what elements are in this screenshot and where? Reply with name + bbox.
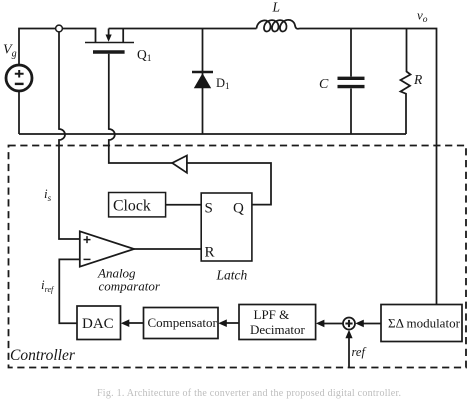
inverter (gate driver) bbox=[172, 156, 187, 173]
wire LPF to compensator bbox=[226, 322, 240, 324]
svg-text:Q1: Q1 bbox=[137, 47, 152, 64]
svg-text:is: is bbox=[44, 186, 52, 203]
svg-text:ref: ref bbox=[352, 345, 367, 359]
svg-text:D1: D1 bbox=[216, 76, 230, 91]
arrowhead into sum bbox=[355, 320, 364, 328]
inverter wire from latch Q bbox=[187, 163, 271, 205]
svg-text:iref: iref bbox=[41, 277, 55, 294]
node (top rail tap) bbox=[56, 25, 63, 32]
wire ref input bbox=[348, 337, 350, 367]
svg-text:ΣΔ modulator: ΣΔ modulator bbox=[388, 316, 461, 331]
svg-text:DAC: DAC bbox=[82, 316, 114, 332]
diode D1 bbox=[202, 29, 204, 135]
svg-text:Compensator: Compensator bbox=[148, 315, 218, 330]
svg-text:Q: Q bbox=[233, 201, 244, 217]
wire comparator output to latch R bbox=[134, 248, 201, 250]
svg-text:Decimator: Decimator bbox=[250, 322, 306, 337]
svg-text:vo: vo bbox=[417, 8, 428, 26]
svg-text:comparator: comparator bbox=[99, 279, 161, 294]
svg-text:S: S bbox=[205, 201, 213, 217]
LPF box bbox=[239, 305, 316, 340]
inductor L bbox=[257, 20, 301, 32]
bottom rail bbox=[19, 133, 406, 135]
capacitor C bbox=[350, 29, 352, 135]
wire gate line with hop over bottom rail bbox=[109, 54, 172, 163]
arrowhead into compensator bbox=[218, 319, 227, 327]
transistor Q1 bbox=[85, 42, 134, 44]
sigma-delta modulator box bbox=[381, 305, 462, 342]
wire clock to latch S bbox=[166, 204, 202, 206]
wire sum to LPF bbox=[323, 323, 343, 325]
svg-text:Fig. 1. Architecture of the c: Fig. 1. Architecture of the converter an… bbox=[97, 388, 401, 399]
clock box bbox=[109, 193, 166, 217]
svg-text:Vg: Vg bbox=[3, 43, 17, 60]
DAC box bbox=[77, 306, 121, 340]
arrowhead ref into sum bbox=[345, 330, 352, 339]
diode D1 triangle bbox=[194, 73, 211, 88]
wire Vg bottom bbox=[18, 91, 20, 134]
svg-text:C: C bbox=[319, 77, 329, 92]
svg-text:Controller: Controller bbox=[10, 347, 76, 364]
top rail right segment bbox=[109, 29, 437, 305]
controller dashed box bbox=[9, 146, 467, 368]
svg-text:LPF &: LPF & bbox=[254, 307, 290, 322]
svg-text:R: R bbox=[205, 245, 215, 261]
compensator box bbox=[144, 308, 219, 339]
comparator U1 bbox=[80, 231, 134, 266]
svg-text:Latch: Latch bbox=[216, 268, 248, 283]
arrowhead into DAC bbox=[121, 319, 130, 327]
summing node bbox=[343, 318, 355, 330]
svg-text:Clock: Clock bbox=[113, 198, 151, 215]
wire compensator to DAC bbox=[128, 322, 144, 324]
latch box bbox=[201, 193, 252, 261]
svg-text:R: R bbox=[413, 72, 423, 87]
source Vg top wire and top rail left segment bbox=[19, 29, 96, 65]
resistor R bbox=[401, 29, 411, 135]
wire sigma-delta to sum bbox=[362, 323, 381, 325]
wire iref: DAC to comparator minus bbox=[59, 259, 80, 323]
svg-text:L: L bbox=[272, 0, 281, 15]
arrowhead on Q1 drain bbox=[106, 35, 112, 42]
voltage source Vg bbox=[6, 65, 32, 91]
wire is sense line with hop over bottom rail bbox=[59, 32, 80, 239]
arrowhead into LPF bbox=[316, 320, 325, 328]
